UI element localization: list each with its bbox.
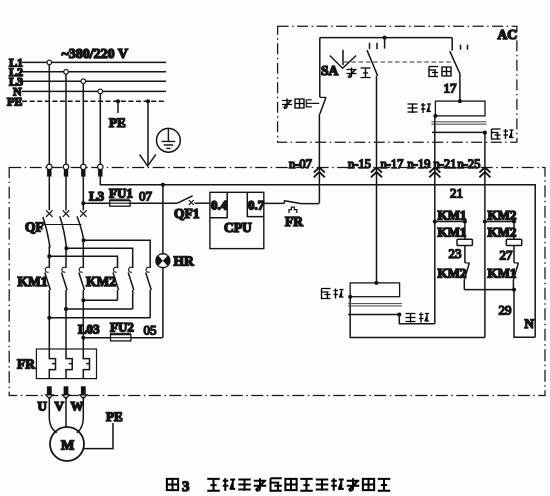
contactor KM1 contact 2 [62,267,68,309]
wire n-21 to forward NC contact [399,315,435,324]
contactor KM2 contact 3 [146,267,152,318]
svg-text:FU2: FU2 [110,320,134,335]
svg-text:AC: AC [498,27,518,42]
wire merge KM2 col1 to W column [81,298,117,302]
svg-text:FU1: FU1 [109,186,133,201]
lamp HR [156,183,194,338]
relay branch KM2: tap [483,220,516,224]
relay branch KM1: tap [433,220,467,224]
svg-text:3: 3 [182,479,190,495]
FR heater V [66,349,72,379]
svg-text:05: 05 [144,323,157,338]
crossing chevrons n-21 [429,167,440,177]
svg-text:PE: PE [109,115,126,130]
fuse FU2 label [110,320,134,335]
svg-text:QF: QF [25,220,44,235]
node AC feed stub [383,36,387,49]
wire L3 [22,80,166,82]
terminal block N [98,164,103,176]
wire V column to FR [65,309,67,349]
pushbutton forward/reverse (AC box compound button) [431,99,487,135]
caption 图3 (pseudo glyphs) [167,478,390,495]
wire tap pole3 to KM2 col1 [82,238,151,268]
svg-text:PE: PE [7,95,22,109]
contactor KM2 contact 1 [113,267,119,300]
selector SA handle symbol [330,50,356,69]
svg-text:U: U [38,399,48,414]
breaker QF pole 1 [43,210,53,268]
svg-text:M: M [61,439,74,454]
wire V to motor [65,397,67,427]
svg-text:KM1: KM1 [438,225,467,240]
wire tap pole2 to KM2 col2 [64,246,132,268]
wire merge KM2 col3 to U column [47,316,150,320]
label 就地 (pseudo hanzi) [429,67,451,77]
switch QF1 [174,196,210,221]
svg-text:~380/220 V: ~380/220 V [62,47,129,62]
wire n-21 [434,116,436,324]
contactor KM1 contact 3 [79,267,85,300]
svg-text:KM2: KM2 [488,208,517,223]
ground symbol (protective earth in circle) [157,128,181,152]
wire tap pole1 to KM2 col3 [47,254,117,268]
svg-text:KM1: KM1 [18,274,48,289]
svg-text:CPU: CPU [224,220,252,235]
interlock contact KM2 (NC) [464,263,469,290]
svg-text:KM1: KM1 [488,266,517,281]
label 手动 (pseudo hanzi) [347,68,371,78]
svg-text:W: W [71,399,84,414]
svg-text:L03: L03 [78,322,100,337]
svg-text:PE: PE [106,409,123,424]
coil KM1 [457,222,472,263]
motor M [50,427,84,461]
breaker QF pole 3 [77,210,87,268]
wire L2 below terminal [65,177,67,211]
svg-text:21: 21 [450,186,463,201]
wire U to motor [49,397,57,433]
wire N [22,90,166,92]
fuse FU1 [83,201,177,207]
interlock contact KM1 (NC) [513,263,518,290]
wire coils common [464,288,516,292]
wire reverse button bottom [350,297,485,338]
svg-text:HR: HR [174,254,195,269]
node PE stub label [109,99,126,130]
svg-text:17: 17 [444,81,458,96]
svg-text:0.7: 0.7 [248,198,265,213]
wire L1 drop [48,62,50,167]
wire U column to FR [48,318,50,349]
crossing chevrons n-07 [314,167,325,177]
label 反转 lower (pseudo hanzi) [322,289,344,299]
svg-text:KM1: KM1 [438,208,467,223]
svg-text:KM2: KM2 [438,266,467,281]
terminal block L1 [47,164,52,176]
svg-text:27: 27 [500,248,514,263]
svg-text:SA: SA [321,63,339,78]
contactor KM2 contact 2 [128,267,134,309]
wire W column to FR [82,300,84,349]
svg-text:n-07: n-07 [289,157,312,171]
wire L2 [22,71,166,73]
enclosure boundary (dash-dot box) [9,168,545,396]
wire N rail [100,177,535,338]
svg-text:L3: L3 [89,189,105,204]
label 急停 (pseudo hanzi) [282,99,304,109]
AC control box boundary [278,26,517,142]
wire PE to panel with arrow [140,99,156,166]
svg-text:n-19: n-19 [408,157,431,171]
wire L1 [22,61,166,63]
wire N drop [99,91,101,167]
crossing chevrons n-15 [371,167,382,177]
selector SA linkage [344,61,454,63]
FR heater U [49,349,55,379]
terminal block L2 [63,164,68,176]
svg-text:07: 07 [139,189,153,204]
terminal V [62,386,69,398]
QF linkage bar [44,224,82,226]
wire L3 drop [82,81,84,167]
svg-text:0.4: 0.4 [211,198,228,213]
svg-text:n-25: n-25 [458,157,481,171]
svg-text:FR: FR [17,357,35,372]
svg-text:N: N [525,316,535,331]
svg-text:QF1: QF1 [174,206,200,221]
selector contact local (就地) [450,38,468,102]
emergency stop button 急停 (NC) [306,38,326,204]
wire AC top bus [320,37,452,39]
thermal contact FR (NC) [264,200,319,229]
svg-text:29: 29 [499,303,512,318]
terminal U [46,386,53,398]
thermal overload FR box [36,349,96,379]
svg-text:n-17: n-17 [381,157,404,171]
selector contact manual (手动) [367,43,378,283]
svg-text:n-15: n-15 [348,157,371,171]
svg-text:FR: FR [285,214,303,229]
svg-text:V: V [55,399,65,414]
wire n-25 [484,133,486,338]
pushbutton reverse/forward (lower compound button) [348,281,402,317]
svg-text:KM2: KM2 [86,274,116,289]
wire L3 below terminal [82,177,84,211]
contactor KM1 contact 1 [45,267,51,318]
wire PE to motor [84,409,123,449]
coil KM2 [506,222,521,263]
label 正转 lower (pseudo hanzi) [406,313,430,323]
crossing chevrons n-25 [479,167,490,177]
wire L2 drop [65,72,67,167]
breaker QF pole 2 [60,210,70,268]
wire W to motor [77,397,84,433]
fuse FU1 label [109,186,133,201]
svg-text:23: 23 [449,246,462,261]
fuse FU2 [81,335,162,341]
terminal block L3 [81,164,86,176]
wire PE (dashed) [22,100,166,102]
terminal W [80,386,87,398]
wire merge KM2 col2 to V column [64,307,133,311]
PLC CPU box [210,192,265,248]
FR heater W [83,349,89,379]
wire L1 below terminal [48,177,50,211]
label 正转 upper (pseudo hanzi) [408,103,432,113]
wire N hook to node 29 [514,290,535,338]
svg-text:KM2: KM2 [488,225,517,240]
label 反转 upper (pseudo hanzi) [492,129,514,139]
